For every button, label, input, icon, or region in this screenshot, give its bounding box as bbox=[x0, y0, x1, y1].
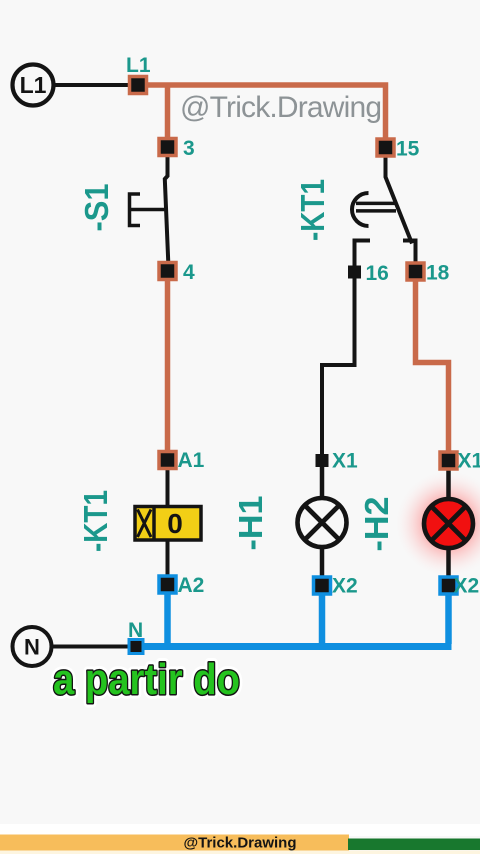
svg-text:@Trick.Drawing: @Trick.Drawing bbox=[184, 835, 297, 852]
timed contact terminal 16 bbox=[355, 241, 371, 267]
svg-text:16: 16 bbox=[366, 262, 389, 285]
svg-text:N: N bbox=[24, 635, 40, 660]
timed contact KT1 delay symbol bbox=[352, 193, 396, 226]
node 4 bbox=[159, 263, 176, 280]
wire: orange top bus L1 node to corner and down to node 15 bbox=[134, 85, 386, 141]
wire: blue node X2 of H1 to neutral bus bbox=[319, 591, 326, 646]
node 3 bbox=[159, 139, 176, 156]
wire: orange node 4 to node A1 bbox=[165, 278, 171, 453]
svg-text:-H2: -H2 bbox=[358, 497, 395, 552]
bottom bar fade strip bbox=[0, 851, 480, 854]
svg-text:3: 3 bbox=[183, 137, 195, 160]
lamp H2 glow halo bbox=[394, 469, 480, 579]
bottom white strip bbox=[0, 824, 480, 836]
subtitle caption "a partir do" bbox=[53, 655, 240, 704]
wire: black coil bottom to node A2 bbox=[166, 539, 170, 578]
node N bbox=[129, 640, 143, 654]
pushbutton S1 actuator bbox=[130, 194, 167, 226]
wire: black lead from L1 source to node L1 bbox=[53, 83, 132, 87]
node X1 of H1 bbox=[316, 454, 329, 467]
node X2 of H2 bbox=[440, 577, 457, 594]
lamp H1 bbox=[298, 498, 347, 547]
wire: blue node X2 of H2 to neutral bus bbox=[445, 591, 452, 644]
svg-text:15: 15 bbox=[396, 138, 420, 161]
node L1 bbox=[130, 77, 147, 94]
svg-text:X2: X2 bbox=[454, 575, 480, 598]
wire: black node 16 down jog left to node X1 of H1 bbox=[322, 277, 355, 454]
svg-text:-H1: -H1 bbox=[232, 496, 269, 551]
svg-text:-KT1: -KT1 bbox=[77, 490, 114, 552]
svg-text:N: N bbox=[128, 619, 143, 642]
svg-text:18: 18 bbox=[426, 262, 450, 285]
svg-text:L1: L1 bbox=[20, 72, 47, 98]
node 16 bbox=[348, 266, 361, 279]
wire: black node X1 to lamp H1 bbox=[320, 466, 325, 500]
svg-text:L1: L1 bbox=[126, 54, 151, 77]
node A2 bbox=[159, 576, 176, 593]
source terminal N bbox=[13, 627, 52, 666]
svg-text:A1: A1 bbox=[178, 449, 205, 472]
wire: black lead from N source to node N bbox=[51, 645, 130, 649]
node 18 bbox=[407, 263, 424, 280]
svg-text:X2: X2 bbox=[332, 575, 358, 598]
svg-text:4: 4 bbox=[183, 261, 195, 284]
svg-text:A2: A2 bbox=[178, 574, 205, 597]
svg-text:X1: X1 bbox=[332, 450, 358, 473]
svg-text:@Trick.Drawing: @Trick.Drawing bbox=[180, 91, 382, 124]
wire: orange drop to node 3 bbox=[165, 87, 171, 140]
lamp H2 bbox=[424, 499, 473, 548]
wire: black node A1 to coil top bbox=[166, 467, 170, 507]
pushbutton S1 blade bbox=[165, 154, 169, 263]
node A1 bbox=[159, 452, 176, 469]
wire: black lamp H1 to node X2 bbox=[320, 546, 325, 579]
wire: orange node 18 down jog right to node X1 of H2 bbox=[416, 277, 449, 453]
bottom bar yellow segment bbox=[0, 835, 349, 851]
node 15 bbox=[377, 139, 394, 156]
wire: black node X1 to lamp H2 bbox=[446, 466, 451, 500]
svg-text:-S1: -S1 bbox=[78, 184, 115, 232]
timed contact KT1 blade 15-18 bbox=[386, 154, 413, 244]
wire: blue neutral bus N bbox=[136, 643, 452, 650]
node X2 of H1 bbox=[314, 577, 331, 594]
node X1 of H2 bbox=[440, 452, 457, 469]
source terminal L1 bbox=[13, 65, 54, 106]
timed contact terminal 18 bbox=[403, 241, 416, 267]
svg-text:a partir do: a partir do bbox=[53, 655, 240, 704]
svg-text:-KT1: -KT1 bbox=[294, 179, 331, 241]
svg-text:X1: X1 bbox=[458, 450, 480, 473]
bottom bar green segment bbox=[348, 839, 480, 851]
svg-text:0: 0 bbox=[167, 508, 183, 539]
wire: blue node A2 to neutral bus bbox=[164, 591, 171, 646]
wire: black lamp H2 to node X2 bbox=[446, 547, 451, 579]
timer relay coil KT1 bbox=[135, 507, 201, 541]
